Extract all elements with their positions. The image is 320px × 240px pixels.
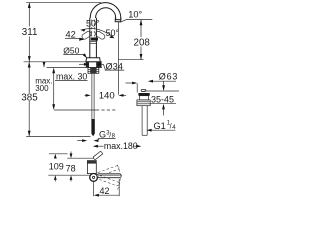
svg-text:50°: 50° — [86, 19, 100, 29]
50 degree swing arc — [82, 29, 114, 38]
dimension 385 — [21, 62, 38, 137]
handle knob (dark) — [91, 38, 98, 41]
svg-text:42: 42 — [100, 186, 110, 196]
dimension max.180 — [93, 141, 142, 151]
dimension 42 (handle) — [65, 30, 85, 41]
faucet spout outer arc — [90, 3, 121, 20]
pop-up waste assembly — [137, 89, 150, 135]
svg-text:311: 311 — [22, 27, 38, 38]
10 degree reference line — [121, 20, 152, 22]
faucet body — [90, 18, 97, 58]
side lever horizontal — [97, 174, 121, 178]
svg-text:50°: 50° — [106, 28, 120, 38]
dimension 35-45 — [151, 95, 177, 116]
dimension 109 — [49, 154, 64, 182]
mounting nut below counter — [88, 68, 99, 74]
spout outlet — [115, 18, 121, 22]
pop-up rod / hose — [91, 73, 94, 136]
svg-text:140: 140 — [99, 90, 115, 101]
dimension max.300 — [35, 68, 55, 111]
side lever up position — [93, 151, 103, 160]
clearance line (max300 bottom ref) — [54, 109, 96, 111]
svg-text:10°: 10° — [128, 10, 142, 20]
faucet spout inner arc — [96, 8, 116, 19]
208 bottom reference line — [118, 59, 143, 61]
svg-text:385: 385 — [21, 93, 38, 104]
basin bottom line at waste — [145, 90, 180, 92]
svg-text:Ø63: Ø63 — [159, 72, 178, 82]
label G1 1/4 — [147, 121, 177, 132]
waste flange leader arrow — [126, 82, 138, 93]
dimension 78 — [66, 152, 76, 182]
handle right petal — [95, 30, 106, 40]
svg-text:78: 78 — [66, 163, 76, 173]
svg-text:max.180: max.180 — [104, 141, 138, 151]
dimension 42 (side lever) — [94, 179, 120, 197]
385 bottom reference line — [26, 135, 90, 137]
svg-text:35-45: 35-45 — [151, 95, 174, 105]
svg-text:208: 208 — [134, 38, 151, 49]
tip swing arc — [117, 165, 120, 190]
label G3/8 with arrows — [77, 129, 115, 142]
outlet extension line — [117, 22, 119, 95]
dimension max.30 — [43, 62, 88, 82]
svg-text:42: 42 — [66, 30, 76, 40]
svg-text:G: G — [99, 129, 106, 139]
svg-text:max. 30: max. 30 — [56, 72, 87, 82]
handle left petal — [81, 30, 92, 40]
208 top reference already at y19.5; dimension 208 — [134, 20, 151, 60]
dimension 311 — [22, 2, 38, 62]
side ref line 3 — [48, 174, 89, 176]
side lever dashed up — [96, 165, 119, 177]
top reference line — [26, 1, 101, 3]
counter bottom line — [47, 67, 103, 69]
label D50 — [63, 46, 87, 58]
dimension 140 — [85, 90, 127, 101]
svg-text:109: 109 — [49, 161, 64, 171]
counter section blocks — [86, 62, 89, 68]
label D34 with arrows — [79, 61, 124, 71]
counter top line — [24, 61, 102, 63]
side ref line 2 — [67, 157, 94, 159]
side lever dashed down — [96, 175, 119, 187]
label D63 — [148, 72, 178, 91]
escutcheon base — [86, 58, 100, 62]
side body — [87, 161, 96, 174]
svg-text:300: 300 — [35, 84, 49, 93]
svg-text:G1: G1 — [154, 121, 166, 131]
side ref line 1 — [49, 153, 68, 155]
side swivel ring — [90, 174, 98, 182]
